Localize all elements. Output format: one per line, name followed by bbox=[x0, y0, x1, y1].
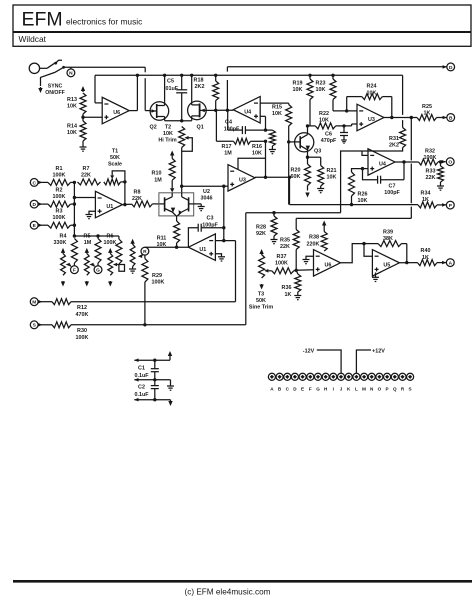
svg-text:S: S bbox=[409, 386, 412, 391]
svg-text:100K: 100K bbox=[104, 240, 117, 246]
-12V arrow below R20 bbox=[305, 193, 309, 198]
node R bbox=[141, 247, 149, 255]
svg-text:F: F bbox=[73, 268, 76, 274]
wire summing bus bbox=[71, 181, 77, 236]
wire M line bbox=[71, 241, 236, 302]
wire U1b output line bbox=[145, 246, 189, 249]
node G bbox=[94, 266, 102, 274]
svg-text:100pF: 100pF bbox=[202, 222, 218, 228]
resistor R16 bbox=[252, 130, 275, 156]
svg-text:1M: 1M bbox=[84, 240, 92, 246]
transistor Q3 bbox=[295, 133, 322, 155]
capacitor C4 bbox=[224, 110, 267, 134]
resistor R18 bbox=[194, 74, 219, 111]
resistor R6 bbox=[104, 233, 122, 264]
svg-text:G: G bbox=[96, 268, 100, 274]
resistor R26 bbox=[349, 169, 368, 207]
svg-text:470K: 470K bbox=[76, 312, 89, 318]
resistor R12 bbox=[52, 299, 89, 318]
svg-text:1M: 1M bbox=[224, 150, 232, 156]
resistor R24 feedback bbox=[345, 84, 392, 118]
wire D bus bbox=[227, 67, 446, 72]
resistor R1 bbox=[48, 166, 71, 186]
svg-text:R23: R23 bbox=[316, 81, 326, 87]
svg-text:Scale: Scale bbox=[108, 162, 122, 168]
svg-text:R38: R38 bbox=[309, 235, 319, 241]
svg-text:100K: 100K bbox=[53, 215, 66, 221]
svg-text:R31: R31 bbox=[389, 136, 399, 142]
footer rule bbox=[13, 580, 472, 583]
svg-text:10K: 10K bbox=[319, 117, 329, 123]
svg-text:R5: R5 bbox=[84, 233, 91, 239]
label SYNC ON/OFF bbox=[45, 84, 65, 97]
node O bbox=[438, 158, 454, 166]
wire Q3 collector to R22 bbox=[308, 125, 316, 127]
wire U4 output line bbox=[214, 109, 233, 112]
wire bank bus bbox=[73, 234, 119, 239]
wire Q2 drain to bus2 bbox=[163, 74, 166, 102]
resistor R38 bbox=[307, 221, 328, 252]
wire bus2 bbox=[95, 74, 403, 76]
wire U2 collectors up bbox=[172, 193, 182, 197]
trimmer T3 bbox=[259, 249, 272, 290]
svg-text:50K: 50K bbox=[110, 155, 120, 161]
trimmer T2 bbox=[179, 127, 193, 152]
svg-text:R39: R39 bbox=[383, 229, 393, 235]
sync on/off switch SW1 bbox=[47, 60, 65, 68]
svg-text:R16: R16 bbox=[252, 144, 262, 150]
svg-text:T1: T1 bbox=[112, 148, 118, 154]
op-amp U5 bbox=[372, 250, 399, 277]
wire triangle bus bbox=[290, 204, 419, 206]
svg-text:U6: U6 bbox=[325, 262, 332, 268]
svg-text:U4: U4 bbox=[379, 162, 386, 168]
svg-text:R37: R37 bbox=[277, 254, 287, 260]
svg-text:R26: R26 bbox=[358, 191, 368, 197]
svg-text:60K: 60K bbox=[291, 174, 301, 180]
svg-text:Q: Q bbox=[393, 386, 397, 391]
capacitor C5 bbox=[164, 74, 187, 121]
svg-text:R13: R13 bbox=[67, 97, 77, 103]
wire T2 to U2 bbox=[180, 148, 183, 193]
svg-text:U5: U5 bbox=[383, 262, 390, 268]
wire D line to R35 bbox=[296, 217, 411, 219]
label T3 bbox=[249, 291, 273, 310]
transistor Q2 bbox=[150, 102, 169, 131]
wiper arrow to pot bbox=[138, 254, 142, 258]
U2 left transistor bbox=[165, 197, 177, 216]
svg-text:electronics for music: electronics for music bbox=[66, 17, 142, 27]
svg-text:R20: R20 bbox=[291, 168, 301, 174]
wire U4a+ to U3b node bbox=[265, 141, 267, 177]
svg-text:J: J bbox=[340, 386, 343, 391]
title block border bbox=[13, 5, 471, 46]
svg-text:R4: R4 bbox=[60, 233, 67, 239]
edge connector pins A-S bbox=[268, 373, 413, 380]
svg-text:1M: 1M bbox=[154, 178, 162, 184]
svg-text:220K: 220K bbox=[307, 241, 320, 247]
wire U3 output bbox=[384, 116, 417, 119]
resistor R22 bbox=[315, 111, 335, 129]
svg-text:C4: C4 bbox=[225, 119, 232, 125]
svg-text:0.1uF: 0.1uF bbox=[134, 373, 149, 379]
resistor R3 bbox=[48, 209, 71, 229]
resistor R13 bbox=[67, 93, 86, 114]
wire Q3 emitter junction bbox=[306, 152, 321, 164]
svg-text:ON/OFF: ON/OFF bbox=[45, 90, 65, 96]
resistor R17 bbox=[216, 110, 267, 156]
wire Q3 collector up bbox=[306, 124, 309, 133]
node D input bbox=[30, 200, 48, 208]
wire to U1 inverting input bbox=[74, 197, 95, 199]
-12V arrow at switch bbox=[38, 87, 42, 93]
svg-text:R15: R15 bbox=[272, 105, 282, 111]
wire U1 output to R8 bbox=[122, 203, 131, 206]
svg-text:R36: R36 bbox=[282, 285, 292, 291]
svg-text:22K: 22K bbox=[132, 196, 142, 202]
resistor R2 bbox=[48, 188, 71, 208]
svg-text:G: G bbox=[316, 386, 320, 391]
svg-text:R1: R1 bbox=[56, 166, 63, 172]
svg-text:22K: 22K bbox=[81, 172, 91, 178]
svg-text:Q3: Q3 bbox=[314, 149, 321, 155]
svg-text:R6: R6 bbox=[107, 233, 114, 239]
svg-text:50K: 50K bbox=[256, 298, 266, 304]
svg-text:O: O bbox=[378, 386, 382, 391]
title text EFM bbox=[22, 9, 63, 31]
title text electronics for music bbox=[66, 17, 142, 27]
switch to -12V wire bbox=[41, 67, 64, 86]
label U2 3046 bbox=[201, 189, 213, 202]
sync input jack J1 bbox=[29, 63, 47, 73]
resistor R34 bbox=[418, 191, 437, 208]
ground below R14 bbox=[80, 141, 87, 151]
ground at U1b + bbox=[215, 254, 225, 261]
svg-text:.01uF: .01uF bbox=[164, 86, 179, 92]
svg-text:U6: U6 bbox=[113, 110, 120, 116]
wire D bus riser bbox=[226, 80, 228, 110]
resistor R7 feedback bbox=[78, 166, 101, 185]
wire S riser to U4b bbox=[246, 211, 341, 214]
ground below R36 bbox=[294, 296, 301, 300]
wire C3 riser bbox=[223, 186, 225, 240]
svg-text:B: B bbox=[449, 115, 453, 121]
wire U4b non-inverting input bbox=[361, 167, 368, 170]
node S bbox=[30, 321, 52, 329]
resistor R19 bbox=[293, 74, 313, 126]
svg-text:EFM: EFM bbox=[22, 9, 63, 31]
wire T2 line to U3 pin bbox=[182, 185, 228, 188]
ground below R16 bbox=[269, 150, 276, 154]
svg-text:U4: U4 bbox=[244, 109, 251, 115]
svg-text:SYNC: SYNC bbox=[48, 84, 63, 90]
svg-text:U3: U3 bbox=[239, 177, 246, 183]
svg-text:U1: U1 bbox=[199, 247, 206, 253]
svg-text:100pF: 100pF bbox=[384, 190, 400, 196]
node M bbox=[30, 298, 52, 306]
resistor R23 bbox=[316, 74, 357, 111]
resistor R28 bbox=[256, 213, 277, 240]
node E bbox=[30, 221, 48, 229]
wire Q1 drain to bus2 bbox=[190, 74, 193, 101]
wire S line bbox=[71, 213, 246, 325]
svg-text:(c) EFM ele4music.com: (c) EFM ele4music.com bbox=[185, 587, 271, 596]
svg-text:R10: R10 bbox=[152, 171, 162, 177]
svg-text:C5: C5 bbox=[167, 79, 174, 85]
svg-text:I: I bbox=[333, 386, 334, 391]
svg-text:Wildcat: Wildcat bbox=[19, 34, 47, 44]
wire U6 output to bus2 bbox=[129, 74, 139, 111]
wire U1b inverting input bbox=[215, 239, 235, 242]
wire U4 inverting input to R15 bbox=[260, 102, 289, 104]
node N bbox=[67, 67, 75, 77]
svg-text:10K: 10K bbox=[367, 90, 377, 96]
svg-text:D: D bbox=[449, 65, 453, 71]
wire sync to Q2 gate bbox=[145, 67, 150, 110]
ground at U2 bbox=[198, 204, 205, 211]
svg-text:R25: R25 bbox=[422, 104, 432, 110]
svg-text:1K: 1K bbox=[422, 255, 429, 261]
wire U3b feedback bracket bbox=[238, 158, 266, 169]
+12V arrow bbox=[168, 351, 172, 360]
capacitor C2 bbox=[134, 380, 158, 400]
svg-text:R14: R14 bbox=[67, 123, 77, 129]
ground rail bbox=[134, 378, 170, 382]
svg-text:L: L bbox=[355, 386, 358, 391]
svg-text:10K: 10K bbox=[67, 130, 77, 136]
svg-text:100K: 100K bbox=[152, 280, 165, 286]
wire Q1 source down bbox=[180, 119, 192, 122]
trimmer pot F bbox=[61, 248, 71, 287]
wire sync bus bbox=[64, 66, 146, 68]
wire U5 output bbox=[400, 261, 418, 264]
resistor R36 bbox=[282, 270, 301, 298]
label T1 bbox=[108, 148, 122, 167]
ground below R33 bbox=[437, 186, 444, 190]
capacitor C7 bbox=[363, 160, 406, 196]
svg-text:3046: 3046 bbox=[201, 196, 213, 202]
svg-text:C6: C6 bbox=[325, 132, 332, 138]
svg-text:2K2: 2K2 bbox=[195, 84, 205, 90]
-12V arrow bbox=[168, 400, 172, 406]
edge connector labels bbox=[270, 386, 411, 391]
+12V arrow above R13 bbox=[81, 86, 85, 92]
svg-text:10K: 10K bbox=[316, 87, 326, 93]
svg-text:-12V: -12V bbox=[303, 348, 315, 354]
-12V feed to pin J bbox=[303, 348, 341, 373]
resistor R30 bbox=[52, 322, 89, 341]
node D (right) bbox=[443, 63, 455, 71]
wire U6 non-inverting input bbox=[83, 116, 102, 118]
wire Q1 gate to R18 bbox=[206, 109, 216, 111]
svg-text:R3: R3 bbox=[56, 209, 63, 215]
wire R31 wrap to S line bbox=[341, 148, 403, 213]
resistor R29 bbox=[142, 255, 165, 326]
+12V rail bbox=[134, 358, 170, 362]
svg-text:1K: 1K bbox=[422, 197, 429, 203]
ground at U6b - bbox=[303, 256, 314, 264]
wire R15/Q3 base junction bbox=[287, 140, 295, 204]
wire R22 to U3 + bbox=[336, 124, 357, 128]
ground below R28 bbox=[271, 240, 278, 244]
resistor R4 bbox=[54, 233, 78, 265]
svg-text:N: N bbox=[69, 71, 73, 77]
resistor R31 bbox=[389, 75, 406, 148]
svg-text:R17: R17 bbox=[222, 144, 232, 150]
resistor R20 bbox=[291, 164, 311, 191]
svg-text:92K: 92K bbox=[256, 231, 266, 237]
capacitor C3 bbox=[188, 215, 225, 247]
node A bbox=[437, 259, 454, 267]
svg-text:R33: R33 bbox=[426, 169, 436, 175]
trimmer pot R bbox=[130, 239, 135, 269]
resistor R33 bbox=[426, 160, 444, 186]
op-amp U3 (lower) bbox=[228, 165, 255, 192]
ground at rail bbox=[167, 380, 174, 390]
svg-text:10K: 10K bbox=[293, 87, 303, 93]
ground below pot R bbox=[129, 269, 136, 273]
svg-text:D: D bbox=[32, 202, 36, 208]
svg-text:T2: T2 bbox=[165, 125, 171, 131]
svg-text:R21: R21 bbox=[327, 168, 337, 174]
svg-text:R30: R30 bbox=[77, 328, 87, 334]
svg-text:R12: R12 bbox=[77, 305, 87, 311]
label C6 bbox=[321, 132, 337, 145]
resistor R39 bbox=[364, 229, 407, 262]
svg-text:C3: C3 bbox=[207, 215, 214, 221]
svg-text:M: M bbox=[362, 386, 366, 391]
svg-text:10K: 10K bbox=[252, 150, 262, 156]
wire U3b output to Q3 base line bbox=[255, 176, 291, 205]
svg-text:1K: 1K bbox=[424, 111, 431, 117]
svg-text:+12V: +12V bbox=[372, 348, 385, 354]
resistor R32 bbox=[419, 148, 439, 165]
U2 right transistor bbox=[177, 197, 201, 216]
wire bus2 left end to U6 inverting input bbox=[95, 75, 102, 103]
wire to U6b + bbox=[296, 269, 313, 272]
svg-text:O: O bbox=[448, 160, 452, 166]
svg-text:R22: R22 bbox=[319, 111, 329, 117]
op-amp U3 (top) bbox=[357, 104, 384, 131]
svg-text:R18: R18 bbox=[194, 78, 204, 84]
trimmer pot G bbox=[84, 248, 94, 287]
transistor array U2 3046 box bbox=[159, 193, 194, 216]
svg-text:0.1uF: 0.1uF bbox=[134, 392, 149, 398]
svg-text:C7: C7 bbox=[389, 183, 396, 189]
ground below C6 bbox=[341, 140, 347, 143]
svg-text:R35: R35 bbox=[280, 238, 290, 244]
resistor R14 bbox=[67, 121, 86, 141]
node F bbox=[71, 266, 79, 274]
svg-text:E: E bbox=[301, 386, 304, 391]
resistor R37 bbox=[272, 254, 296, 274]
resistor R35 bbox=[280, 218, 299, 272]
wire R13-R14 junction bbox=[81, 114, 84, 121]
svg-text:22K: 22K bbox=[280, 244, 290, 250]
transistor Q1 bbox=[188, 101, 207, 130]
resistor R21 bbox=[318, 157, 337, 188]
svg-text:2K2: 2K2 bbox=[389, 142, 399, 148]
svg-text:10K: 10K bbox=[163, 131, 173, 137]
op-amp U4 (sine shaper) bbox=[368, 149, 395, 175]
svg-text:100pF: 100pF bbox=[224, 127, 240, 133]
resistor R11 bbox=[157, 221, 180, 248]
svg-text:10K: 10K bbox=[358, 198, 368, 204]
wire U6b output bbox=[341, 242, 366, 263]
resistor R15 bbox=[272, 103, 292, 142]
wire U4b output bbox=[395, 161, 419, 163]
svg-text:T3: T3 bbox=[258, 291, 264, 297]
wire U4 non-inverting input bbox=[260, 116, 265, 130]
svg-text:R40: R40 bbox=[421, 248, 431, 254]
trimmer T1 scale bbox=[104, 171, 125, 185]
svg-text:R29: R29 bbox=[152, 273, 162, 279]
svg-text:Sine Trim: Sine Trim bbox=[249, 305, 273, 311]
svg-text:Q1: Q1 bbox=[197, 124, 204, 130]
svg-text:Hi Trim: Hi Trim bbox=[158, 138, 176, 144]
svg-text:R11: R11 bbox=[157, 236, 167, 242]
node P bbox=[437, 201, 454, 209]
svg-text:100K: 100K bbox=[53, 172, 66, 178]
wire R8 to U2 bbox=[132, 201, 165, 207]
svg-text:470pF: 470pF bbox=[321, 138, 337, 144]
label R8 bbox=[132, 189, 142, 202]
svg-text:10K: 10K bbox=[327, 175, 337, 181]
svg-text:R32: R32 bbox=[425, 148, 435, 154]
node C bbox=[30, 179, 48, 187]
wire T1 to U1 output bbox=[121, 180, 127, 204]
svg-text:10K: 10K bbox=[67, 103, 77, 109]
svg-text:U3: U3 bbox=[368, 117, 375, 123]
svg-text:R: R bbox=[143, 249, 147, 255]
svg-text:Q2: Q2 bbox=[150, 124, 157, 130]
op-amp U6 bbox=[102, 97, 129, 124]
svg-text:R2: R2 bbox=[56, 188, 63, 194]
ground at U5 + bbox=[372, 273, 379, 282]
wire Q2 source down bbox=[165, 119, 182, 122]
svg-text:R34: R34 bbox=[421, 191, 431, 197]
op-amp U1 (summer) bbox=[95, 191, 122, 218]
svg-text:U1: U1 bbox=[106, 204, 113, 210]
svg-text:22K: 22K bbox=[426, 175, 436, 181]
capacitor C1 bbox=[134, 360, 158, 380]
ground below R21 bbox=[317, 189, 324, 193]
ground at U1 + bbox=[86, 211, 96, 219]
resistor R40 bbox=[418, 248, 438, 265]
resistor R5 bbox=[84, 233, 101, 265]
svg-text:R8: R8 bbox=[134, 189, 141, 195]
wire U2 emitters down bbox=[176, 216, 178, 221]
title block divider bbox=[13, 31, 471, 33]
svg-text:A: A bbox=[449, 261, 453, 267]
wire R6 to pot wiper bbox=[117, 264, 124, 271]
wire U4b inverting input bbox=[362, 151, 368, 155]
subtitle Wildcat bbox=[19, 34, 47, 44]
svg-text:330K: 330K bbox=[54, 240, 67, 246]
+12V feed to pin L bbox=[356, 348, 385, 373]
svg-text:10K: 10K bbox=[272, 111, 282, 117]
resistor R10 bbox=[152, 151, 176, 193]
svg-text:R7: R7 bbox=[83, 166, 90, 172]
svg-text:1K: 1K bbox=[285, 292, 292, 298]
svg-text:U2: U2 bbox=[203, 189, 210, 195]
resistor R25 bbox=[417, 104, 437, 121]
op-amp U4 (integrator) bbox=[233, 97, 260, 124]
svg-text:P: P bbox=[386, 386, 389, 391]
-12V rail bbox=[134, 398, 170, 402]
trimmer pot H bbox=[108, 248, 117, 287]
node B bbox=[437, 114, 455, 122]
